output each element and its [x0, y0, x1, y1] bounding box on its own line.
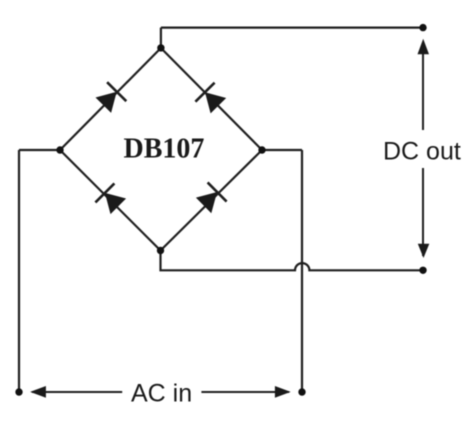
bridge edge L-T (diode D1 wire) [60, 48, 161, 150]
svg-text:DC out: DC out [383, 137, 461, 165]
terminal DC out - [419, 267, 426, 274]
bridge edge L-B (diode D3 wire) [60, 150, 161, 251]
junction node + (bridge top) [157, 44, 164, 51]
wire from bridge AC left node to left rail [19, 149, 60, 151]
wire top rail to DC out + terminal [161, 27, 423, 29]
diode D4 (bridge - node to AC right) [196, 182, 227, 213]
bridge edge B-R (diode D4 wire) [161, 150, 263, 251]
wire from bridge - node down and right with hop over right rail [161, 251, 424, 271]
dimension arrow AC in (horizontal double-headed, between AC terminals) [30, 386, 291, 398]
wire left rail down to AC in left terminal [18, 150, 20, 392]
terminal AC in left [15, 388, 22, 395]
wire right rail down to AC in right terminal [301, 150, 303, 392]
diode D3 (bridge - node to AC left) [95, 183, 126, 214]
wire from bridge AC right node to right rail [262, 149, 302, 151]
terminal AC in right [298, 388, 305, 395]
dimension arrow DC out (vertical double-headed, between + and - terminals) [418, 39, 430, 258]
diode D2 (AC right to top +) [195, 83, 226, 114]
wire from bridge + node up to top rail [160, 28, 162, 48]
junction node - (bridge bottom) [157, 247, 164, 254]
junction node AC right (bridge right) [258, 146, 265, 153]
svg-text:DB107: DB107 [124, 134, 205, 165]
bridge edge T-R (diode D2 wire) [161, 48, 262, 150]
junction node AC left (bridge left) [56, 146, 63, 153]
svg-text:AC in: AC in [131, 379, 192, 407]
terminal DC out + [419, 24, 426, 31]
diode D1 (lower-left to top, anode at AC left, cathode to + ) [96, 82, 127, 113]
